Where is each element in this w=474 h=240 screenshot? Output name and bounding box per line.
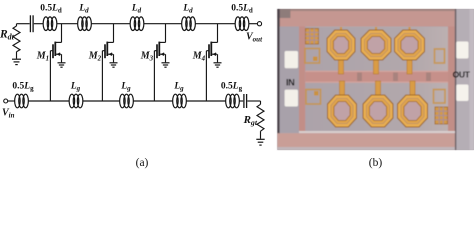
photo: pad frame square top-right [435,49,445,63]
label M4 [192,51,206,63]
label Lg (3) [173,82,184,93]
wire drain-line node D1 down to M1 drain [61,24,63,43]
inductor Ld (section 1-2, drain line) [78,17,92,31]
wire drain line: 0.5Ld to output terminal [249,23,257,25]
inductor Lg (section 3-4, gate line) [173,94,187,108]
wire drain line: Rdt to capacitor [17,23,30,25]
label IN [286,78,295,88]
inductor Lg (section 2-3, gate line) [120,94,134,108]
label M1 [36,51,49,63]
wire gate line: Lg to Lg (node G3) [133,100,172,102]
photo: top salmon band [277,9,454,27]
photo: die seal ring left [299,27,305,134]
wire gate line: Vin to 0.5Lg [8,100,15,102]
photo: bond pad right lower [456,85,468,102]
chip micrograph photo background [277,9,474,150]
label 0.5Ld (left) [40,4,62,15]
inductor 0.5Ld (output half-section, drain line) [235,17,249,31]
capacitor (drain-line dc block) [30,15,33,32]
photo: middle interconnect band [305,71,448,83]
wire gate line: 0.5Lg to capacitor [239,100,243,102]
photo: die area [305,27,448,131]
ground under Rdt [12,59,21,64]
photo: die seal ring right [448,27,455,134]
wire drain line: 0.5Ld to Ld (node D1) [57,23,78,25]
photo: left pad column [280,27,299,134]
caption (a) [136,157,149,169]
wire M2 gate down to gate line (node G2) [101,51,103,101]
ground at M4 source [214,63,222,67]
photo: pad frame square bottom-right upper [434,90,446,104]
photo: tail of spiral inductor top 1 [338,27,343,74]
photo: transistor cells on interconnect band [357,73,431,82]
caption (b) [369,157,383,169]
label Ld (3) [182,4,193,15]
label Lg (2) [120,82,131,93]
svg-text:OUT: OUT [453,70,471,80]
inductor Lg (section 1-2, gate line) [69,94,83,108]
label Vout [246,32,263,44]
wire drain line: Ld to Ld (node D2) [91,23,130,25]
label M3 [140,51,154,63]
photo: bottom salmon band [277,133,454,147]
label M2 [88,51,102,63]
transistor M1 (NMOS) [50,42,61,63]
resistor Rgt (gate-line termination) [257,101,264,139]
photo: left dark edge [277,9,279,150]
wire gate line: capacitor to Rgt corner [247,100,260,102]
label Lg (1) [70,82,81,93]
inductor 0.5Ld (input half-section, drain line) [43,17,57,31]
wire M4 gate down to gate line (node G4) [205,51,207,101]
wire drain-line node D4 down to M4 drain [217,24,219,43]
label OUT [453,70,471,80]
transistor M4 (NMOS) [206,42,217,63]
photo: tail of spiral inductor top 3 [407,27,412,74]
capacitor (gate-line dc block) [244,94,247,108]
photo: tail of spiral inductor bottom 2 [375,81,380,97]
photo: bottom white line [299,131,455,133]
svg-text:(b): (b) [369,157,383,169]
ground at M2 source [110,63,118,67]
label 0.5Lg (right) [221,82,243,93]
resistor Rdt (drain-line termination) [13,24,20,59]
photo: pad frame square bottom-left [306,90,321,105]
label Rgt [243,114,258,127]
photo: bond pad left lower [285,90,298,107]
inductor Ld (section 3-4, drain line) [182,17,196,31]
wire gate line: Lg to 0.5Lg (node G4) [186,100,226,102]
wire gate line: Lg to Lg (node G2) [83,100,120,102]
wire M1 gate down to gate line (node G1) [49,51,51,101]
svg-text:IN: IN [286,78,295,88]
photo: tail of spiral inductor top 2 [373,27,378,74]
photo: spiral inductor top row 2 [361,30,391,60]
label Vin [2,108,15,120]
photo: MIM capacitor array bottom-right [435,107,448,124]
terminal Vin [4,99,8,103]
photo: bond pad left upper [285,51,298,68]
wire M3 gate down to gate line (node G3) [153,51,155,101]
inductor 0.5Lg (termination half-section, gate line) [226,94,240,108]
photo: bottom light edge [277,147,454,150]
label Rdt [0,29,15,42]
wire gate line: 0.5Lg to Lg (node G1) [28,100,69,102]
ground at M3 source [162,63,170,67]
ground under Rgt [256,139,264,145]
inductor Ld (section 2-3, drain line) [130,17,144,31]
svg-text:(a): (a) [136,157,149,169]
photo: right pad column [456,9,474,150]
inductor 0.5Lg (input half-section, gate line) [15,94,29,108]
photo: right dark line [455,9,457,150]
wire drain line: Ld to 0.5Ld (node D4) [195,23,235,25]
photo: spiral inductor bottom row 1 [328,95,357,127]
photo: spiral inductor top row 3 [395,30,425,60]
terminal Vout [257,22,261,26]
photo: spiral inductor bottom row 3 [398,95,428,127]
photo: spiral inductor bottom row 2 [363,95,393,127]
wire drain line: Ld to Ld (node D3) [144,23,182,25]
transistor M2 (NMOS) [102,42,113,63]
label Ld (1) [78,4,89,15]
photo: tail of spiral inductor bottom 1 [339,81,344,97]
photo: bond pad right upper [456,42,468,59]
label Ld (2) [131,4,142,15]
label 0.5Lg (left) [12,82,34,93]
label 0.5Ld (right) [231,4,253,15]
wire drain-line node D3 down to M3 drain [165,24,167,43]
wire drain line: capacitor to 0.5Ld [34,23,43,25]
ground at M1 source [58,63,66,67]
wire drain-line node D2 down to M2 drain [113,24,115,43]
photo: MIM capacitor array top-left [306,29,319,45]
photo: spiral inductor top row 1 [327,30,355,60]
photo: tail of spiral inductor bottom 3 [410,81,415,97]
photo: pad frame square top-left [305,49,320,64]
transistor M3 (NMOS) [154,42,165,63]
